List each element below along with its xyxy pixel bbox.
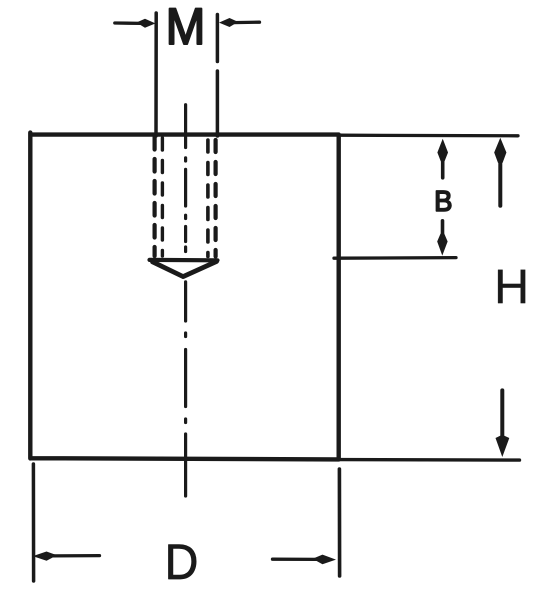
hole-depth extension line (for B) — [334, 256, 456, 260]
D extension line left — [32, 464, 36, 581]
drill point V — [153, 261, 217, 276]
thread outer dashed line left — [153, 137, 157, 256]
label D — [169, 545, 197, 579]
D dimension arrow right (points right) — [273, 555, 335, 564]
thread outer dashed line right — [214, 140, 218, 257]
thread inner dashed line right — [206, 140, 210, 257]
magnet body outline — [30, 133, 338, 460]
M extension line left — [154, 13, 158, 136]
vertical centerline (dash-dot) — [184, 105, 187, 496]
top edge extension line (right, for B/H) — [339, 134, 518, 138]
B dimension arrow down — [438, 221, 448, 255]
hole bottom line — [150, 258, 218, 263]
B dimension arrow up — [438, 140, 448, 178]
label B — [436, 191, 451, 211]
label M — [170, 9, 202, 44]
M dimension arrow right (points left) — [220, 19, 259, 27]
H dimension arrow up — [495, 139, 506, 206]
M extension line right — [216, 15, 220, 137]
thread inner dashed line left — [161, 138, 164, 256]
D extension line right — [338, 469, 342, 576]
label H — [498, 270, 525, 303]
bottom edge extension line (right, for H) — [339, 458, 520, 462]
H dimension arrow down — [496, 390, 509, 455]
D dimension arrow left (points left) — [34, 552, 100, 560]
M dimension arrow left (points right) — [115, 19, 155, 27]
